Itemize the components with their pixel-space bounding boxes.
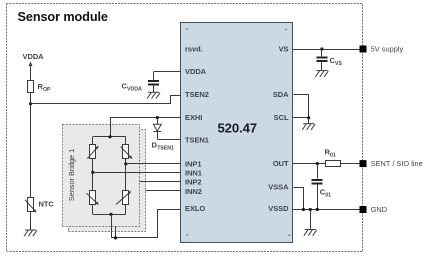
svg-text:INP1: INP1 xyxy=(185,160,201,169)
svg-text:01: 01 xyxy=(325,192,331,198)
svg-text:VDDA: VDDA xyxy=(185,67,207,76)
svg-text:VDDA: VDDA xyxy=(23,52,45,61)
svg-text:SDA: SDA xyxy=(273,90,289,99)
svg-text:VSSA: VSSA xyxy=(268,183,289,192)
svg-text:VDDA: VDDA xyxy=(127,86,142,92)
svg-text:EXLO: EXLO xyxy=(185,204,205,213)
svg-text:Sensor Bridge 1: Sensor Bridge 1 xyxy=(67,149,76,201)
svg-text:TSEN1: TSEN1 xyxy=(185,135,209,144)
svg-text:VS: VS xyxy=(279,45,289,54)
svg-text:OUT: OUT xyxy=(273,159,289,168)
svg-text:VSSD: VSSD xyxy=(268,204,289,213)
svg-text:GND: GND xyxy=(371,205,387,214)
svg-text:rsvd.: rsvd. xyxy=(185,45,203,54)
svg-text:5V supply: 5V supply xyxy=(371,45,404,54)
svg-text:SCL: SCL xyxy=(274,113,289,122)
svg-text:INN2: INN2 xyxy=(185,187,202,196)
svg-text:01: 01 xyxy=(330,153,336,159)
svg-text:INN1: INN1 xyxy=(185,169,202,178)
svg-text:EXHI: EXHI xyxy=(185,113,202,122)
svg-text:VS: VS xyxy=(335,61,342,67)
svg-text:520.47: 520.47 xyxy=(218,121,257,136)
svg-text:OP: OP xyxy=(43,87,51,93)
svg-text:INP2: INP2 xyxy=(185,178,201,187)
svg-text:NTC: NTC xyxy=(39,199,55,208)
svg-text:TSEN2: TSEN2 xyxy=(185,90,209,99)
svg-text:Sensor module: Sensor module xyxy=(18,10,108,24)
svg-text:TSEN1: TSEN1 xyxy=(157,146,174,152)
svg-text:SENT / SIO line: SENT / SIO line xyxy=(371,159,423,168)
